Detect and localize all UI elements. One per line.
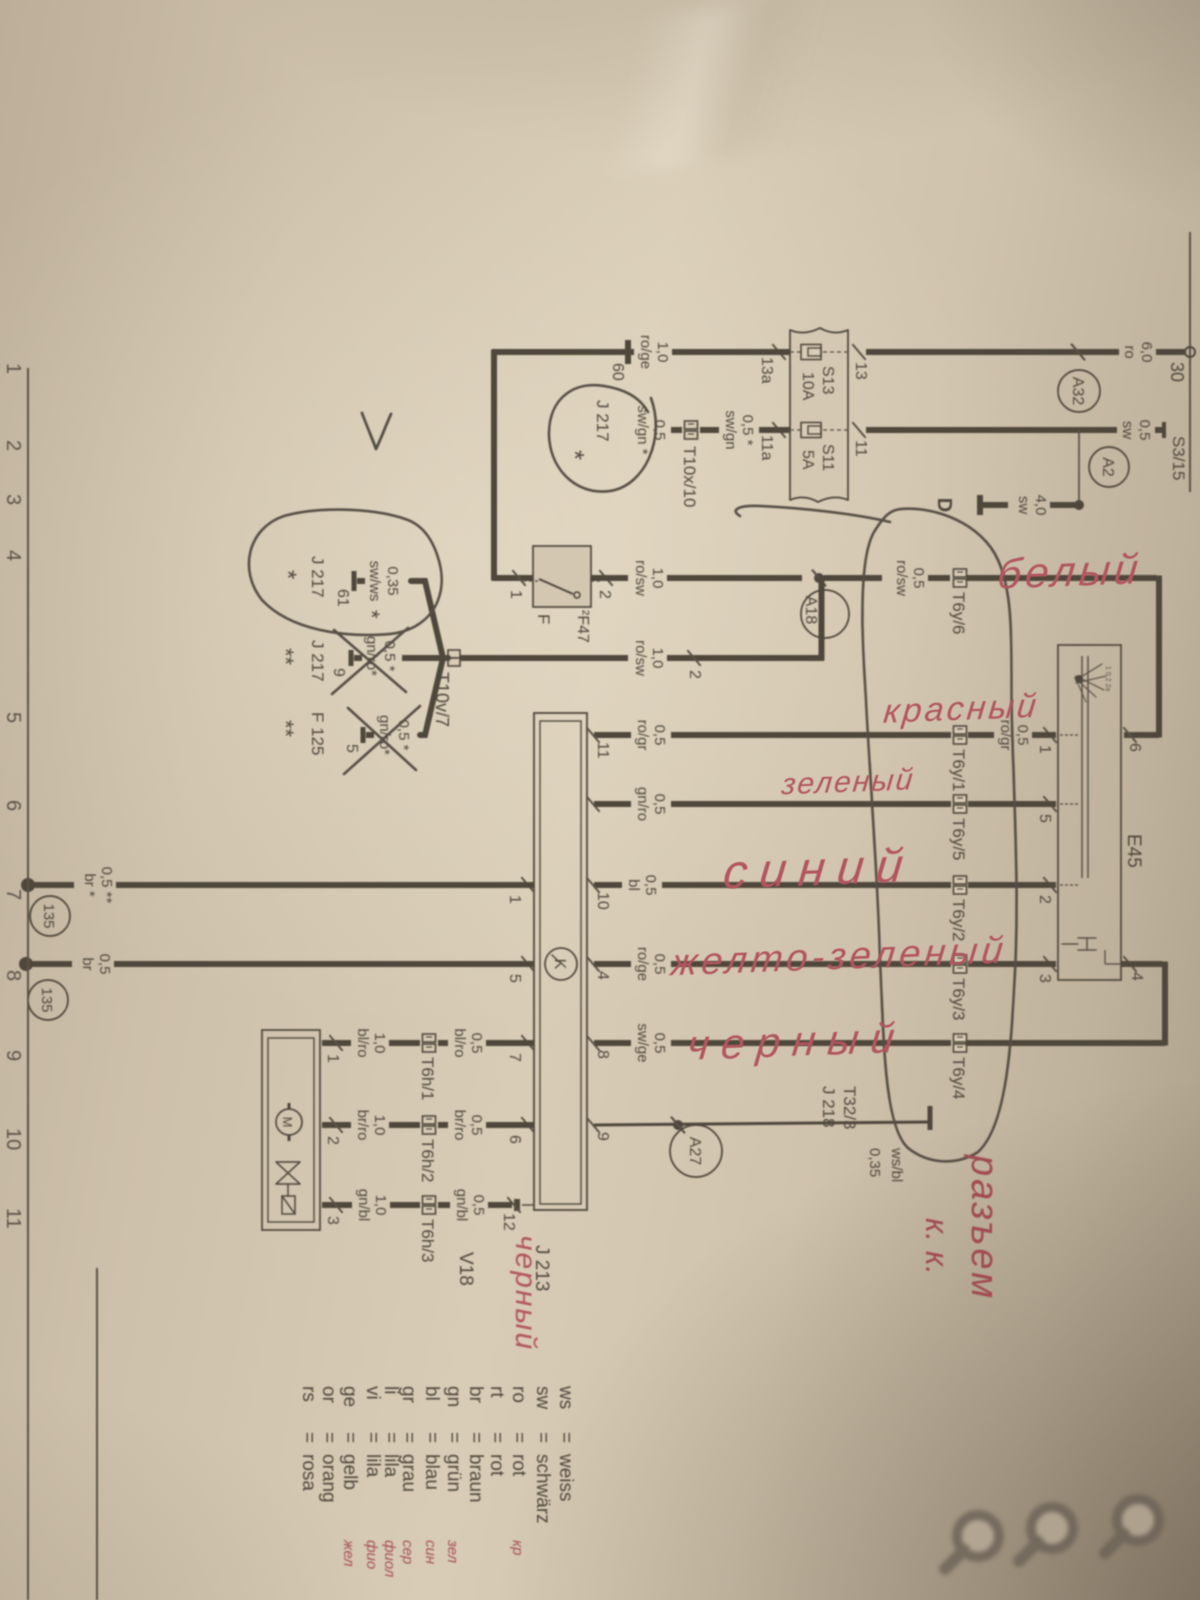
tick 2 on c5 [688,651,700,665]
svg-text:sw/gn *: sw/gn * [634,405,651,454]
svg-text:*: * [560,450,590,460]
svg-text:=: = [398,1432,419,1443]
svg-text:=: = [486,1432,507,1443]
K pin 10 [587,878,599,892]
svg-text:*: * [274,570,301,579]
S3/15 stub [1162,422,1166,438]
ground wire br (c9) [114,961,534,967]
E45 pin 5 [1044,797,1056,811]
svg-text:sw: sw [1119,421,1136,440]
svg-text:sw/ge: sw/ge [634,1023,651,1062]
straight branch to 9 [402,655,448,661]
svg-text:0,5 *: 0,5 * [739,415,756,446]
svg-text:1 0 2 2a: 1 0 2 2a [1104,666,1111,691]
svg-text:ro/sw: ro/sw [632,640,649,676]
svg-text:weiss: weiss [555,1453,576,1502]
svg-text:0,5: 0,5 [642,875,659,896]
svg-text:br: br [465,1386,486,1404]
circle 135 [28,980,68,1020]
branch A18 to T10v/7 (c5) [819,576,825,661]
svg-text:F: F [534,614,553,624]
svg-text:J 217: J 217 [593,400,612,442]
wire ro/ge (c9) E45/3 [968,961,1056,967]
tick 11a [773,423,785,437]
svg-text:lila: lila [362,1454,383,1478]
svg-text:sw/ws: sw/ws [366,561,383,602]
terminal bar 9 [349,650,354,666]
svg-text:7: 7 [506,1053,523,1062]
svg-text:bl/ro: bl/ro [354,1028,371,1057]
fuse box S13/S11 [790,328,848,502]
svg-text:10: 10 [2,1128,24,1150]
svg-text:6,0: 6,0 [1138,342,1155,363]
svg-text:жел: жел [340,1539,357,1567]
svg-text:A18: A18 [802,596,819,625]
svg-text:gn/ro: gn/ro [634,787,651,821]
svg-text:grün: grün [443,1454,464,1492]
E45 box [1058,645,1121,980]
svg-text:2: 2 [2,440,24,451]
connector T6y/4 [954,1034,967,1042]
svg-text:T6h/2: T6h/2 [418,1139,437,1182]
svg-text:1: 1 [1036,745,1053,754]
svg-text:к. к.: к. к. [919,1218,955,1275]
switch lever [539,579,573,594]
svg-text:1: 1 [507,590,524,599]
pen ellipse around J217 [549,385,656,491]
E45 pin 4 [1124,957,1136,971]
Y split right branch to 5 [420,658,448,735]
svg-text:9: 9 [330,668,347,677]
svg-text:T6y/5: T6y/5 [949,818,968,861]
svg-text:10: 10 [594,892,611,910]
svg-text:ro/ge: ro/ge [634,947,651,981]
pen blob around 61/J217 [249,510,442,635]
svg-text:5: 5 [343,744,360,753]
svg-text:0,5: 0,5 [468,1033,485,1054]
svg-text:rt: rt [486,1386,507,1398]
svg-text:sw/gn: sw/gn [722,410,739,449]
svg-text:or: or [318,1386,339,1404]
svg-text:1,0: 1,0 [649,648,666,669]
svg-text:5A: 5A [799,450,816,470]
svg-text:F 125: F 125 [308,712,327,755]
svg-text:2: 2 [596,590,613,599]
svg-text:T6h/3: T6h/3 [418,1219,437,1262]
svg-text:A32: A32 [1069,377,1086,406]
K strip J213 connector [534,713,587,1210]
E45 H contact [1062,938,1096,950]
svg-text:M: M [280,1117,295,1128]
svg-text:ws: ws [555,1385,576,1409]
K pin 1 [522,878,534,892]
svg-text:ro/gr: ro/gr [634,720,651,751]
svg-text:5: 5 [506,974,523,983]
svg-text:=: = [318,1432,339,1443]
svg-text:T6h/1: T6h/1 [418,1057,437,1100]
svg-text:13: 13 [852,362,869,380]
svg-text:gelb: gelb [339,1454,360,1490]
svg-text:T32/3: T32/3 [840,1086,859,1129]
svg-text:0,5: 0,5 [651,794,668,815]
svg-text:8: 8 [594,1050,611,1059]
svg-text:²F47: ²F47 [574,610,591,643]
K pin 5 [522,957,534,971]
svg-text:T6y/1: T6y/1 [949,749,968,792]
svg-text:ro/ge: ro/ge [637,335,654,369]
svg-text:T6y/6: T6y/6 [949,592,968,635]
svg-text:11a: 11a [758,435,775,461]
svg-text:*: * [359,610,384,619]
svg-text:0,35: 0,35 [866,1148,883,1177]
tick 2 (F pin) [600,571,612,585]
svg-text:0,5: 0,5 [1136,420,1153,441]
circle A2 [1089,447,1129,487]
top rule (30 bus) [1189,232,1191,492]
bottom corner run to F [491,350,497,581]
svg-text:J 217: J 217 [308,556,327,598]
svg-text:сер: сер [399,1540,416,1564]
svg-text:3: 3 [324,1216,341,1225]
svg-text:0,5: 0,5 [651,725,668,746]
svg-text:=: = [339,1432,360,1443]
circle 135 [30,896,70,936]
svg-text:6: 6 [1126,743,1143,752]
splice A27 dot [673,1120,683,1130]
svg-text:10A: 10A [799,372,816,401]
svg-text:8: 8 [2,970,24,981]
svg-text:K: K [551,959,568,970]
E45 pin 3 [1044,957,1056,971]
svg-text:=: = [443,1432,464,1443]
svg-text:**: ** [273,720,298,738]
pen big blob around T6y row [736,506,1017,1161]
terminal D bar [977,495,983,515]
svg-text:30: 30 [1167,362,1187,382]
svg-text:ro/sw: ro/sw [893,560,910,596]
svg-text:rs: rs [298,1386,319,1402]
svg-text:кр: кр [509,1540,526,1555]
svg-text:=: = [532,1432,553,1443]
fuse S11 icon [801,423,821,438]
svg-text:7: 7 [2,889,24,900]
connector T6y/1 [954,726,967,734]
svg-text:11: 11 [594,742,611,759]
dot on rule [21,878,35,892]
junction A18 dot [814,573,824,583]
K pin 8 [587,1036,599,1050]
svg-text:S13: S13 [819,366,836,395]
connector T6h/2 [423,1116,436,1124]
svg-text:gr: gr [398,1386,419,1404]
wire up and over to E45/6 [967,575,1157,581]
svg-text:2: 2 [324,1136,341,1145]
svg-text:1: 1 [2,363,24,374]
svg-text:1,0: 1,0 [371,1115,388,1136]
svg-text:черный: черный [509,1235,542,1351]
connector T6y/3 [954,955,967,963]
fuse S13 icon [801,345,821,360]
svg-text:bl: bl [625,879,642,891]
svg-text:br/ro: br/ro [354,1110,371,1141]
svg-text:blau: blau [421,1454,442,1490]
svg-text:9: 9 [594,1132,611,1141]
connector T10v/7 [448,650,460,658]
svg-text:lila: lila [380,1454,401,1478]
svg-text:0,5: 0,5 [651,420,668,441]
valve [276,1162,300,1184]
pen X over 5 labels [344,706,420,774]
svg-text:=: = [380,1432,401,1443]
Y split left branch to 61 [411,581,448,658]
svg-text:sw: sw [532,1386,553,1410]
tick 11 [853,423,865,437]
svg-text:0,5: 0,5 [1014,725,1031,746]
svg-text:0,5 **: 0,5 ** [98,867,115,904]
magnifier icons top right [1105,1499,1159,1553]
svg-text:61: 61 [334,589,351,607]
ground wire br (c8) [116,882,534,888]
E45 slider lines [1087,656,1089,878]
wire bl/ro (c10) to V18/1 [486,1040,534,1046]
V18 pin 1 [330,1036,342,1050]
svg-text:D: D [933,498,955,512]
svg-text:1,0: 1,0 [372,1195,389,1216]
svg-text:6: 6 [2,800,24,811]
svg-text:=: = [298,1432,319,1443]
switch F / F47 box [533,546,591,607]
svg-text:5: 5 [1036,814,1053,823]
V18 pump box [262,1030,320,1230]
svg-text:1,0: 1,0 [371,1033,388,1054]
V18 pin 3 [330,1198,342,1212]
wire 1,0 ro/ge down from S13 (c1) [672,349,790,355]
svg-text:J 217: J 217 [308,640,327,682]
svg-text:3: 3 [1036,974,1053,983]
svg-text:ro: ro [1121,345,1138,358]
connector T6y/6 [954,569,967,577]
svg-text:9: 9 [2,1050,24,1061]
svg-text:135: 135 [40,903,57,928]
wire 0,5 ro/sw up to T6y/6 (c4) [824,575,882,581]
wire gn/ro (c7) E45/5 [968,801,1056,807]
svg-text:разъем: разъем [963,1154,1005,1301]
svg-text:2: 2 [686,670,703,679]
connection circle A27 [670,1125,722,1177]
svg-text:4,0: 4,0 [1032,495,1049,516]
svg-text:bl/ro: bl/ro [451,1028,468,1057]
connection circle A18 [801,590,849,638]
A2 link + node [1078,430,1080,505]
connector T6y/2 [954,876,967,884]
tick 13 [853,345,865,359]
K pin 9 [587,1118,599,1132]
node circle: wire to 30 bus [1185,347,1195,357]
svg-text:sw: sw [1015,496,1032,515]
connection A32 tick [1072,344,1085,359]
connector T10x/10 [685,421,698,429]
svg-text:gn/bl: gn/bl [453,1189,470,1222]
svg-text:li: li [380,1386,401,1394]
terminal bar 61 [352,571,357,591]
svg-text:ro: ro [508,1386,529,1403]
svg-text:0,35: 0,35 [384,566,401,595]
connection circle A32 [1058,370,1100,412]
K pin 7 [522,1036,534,1050]
motor M [276,1109,302,1135]
svg-text:=: = [421,1432,442,1443]
svg-text:4: 4 [2,550,24,561]
svg-text:4: 4 [1128,972,1145,981]
svg-text:A27: A27 [686,1137,703,1166]
svg-text:1: 1 [324,1054,341,1063]
legend separator rule [96,1268,98,1600]
svg-text:6: 6 [506,1135,523,1144]
wire 0,5 sw down (c2) [866,427,1117,433]
svg-text:br/ro: br/ro [451,1110,468,1141]
circle K [545,948,577,980]
E45/4 jog to c10 [1121,961,1163,967]
E45 pin 1 [1044,728,1056,742]
svg-text:A2: A2 [1099,457,1116,477]
svg-text:orang: orang [318,1454,339,1503]
svg-text:=: = [465,1432,486,1443]
K pin 6 [522,1118,534,1132]
connector T6y/5 [954,795,967,803]
svg-text:син: син [422,1540,439,1564]
svg-text:V18: V18 [455,1252,476,1286]
V18 pin 2 [330,1118,342,1132]
pen checkmark [362,413,391,449]
svg-text:=: = [555,1432,576,1443]
pen X over 9 labels [332,628,408,694]
svg-text:ge: ge [339,1386,360,1407]
K pin top (gn/ro) [587,797,599,811]
svg-text:12: 12 [500,1213,517,1231]
svg-text:J 218: J 218 [819,1086,838,1128]
svg-text:3: 3 [2,494,24,505]
svg-text:1,0: 1,0 [654,342,671,363]
svg-text:E45: E45 [1123,834,1144,868]
tick 1 (F pin) [513,571,525,585]
wire gn/bl (c12) to V18/3 [488,1202,512,1208]
svg-text:11: 11 [2,1208,24,1229]
E45 pin 6 [1124,728,1136,742]
svg-text:0,5: 0,5 [910,568,927,589]
svg-text:зел: зел [444,1539,461,1564]
svg-text:rot: rot [508,1454,529,1477]
svg-text:60: 60 [609,363,626,381]
K pin 12 [522,1204,534,1206]
K pin 4 [587,957,599,971]
svg-text:vi: vi [362,1386,383,1400]
svg-text:фиол: фиол [381,1540,398,1578]
connector T6h/3 [423,1196,436,1204]
svg-text:ws/bl: ws/bl [888,1147,905,1182]
wire br/ro (c11) to V18/2 [486,1122,534,1128]
switch dashes [588,580,600,582]
svg-text:S3/15: S3/15 [1169,436,1188,480]
svg-text:T6y/3: T6y/3 [949,978,968,1021]
terminal 60 bar [625,340,631,364]
wire 1,0 ro/sw up from F (c4) [591,575,628,581]
svg-text:grau: grau [398,1454,419,1492]
svg-text:2: 2 [1036,895,1053,904]
svg-text:rosa: rosa [298,1454,319,1491]
tick 13a [773,345,785,359]
wire c2 sw/gn below 11a [759,427,790,433]
E45 pin 2 [1044,878,1056,892]
svg-text:schwärz: schwärz [532,1454,553,1524]
bottom rule [27,368,29,1600]
E45 contact dashes [1060,734,1078,736]
svg-text:braun: braun [465,1454,486,1503]
svg-text:**: ** [273,648,298,666]
svg-text:5: 5 [2,712,24,723]
wire bl (c8) E45/2 [968,882,1056,888]
svg-text:0,5: 0,5 [651,954,668,975]
svg-text:0,5: 0,5 [470,1195,487,1216]
svg-text:13a: 13a [758,357,775,384]
svg-text:T6y/4: T6y/4 [949,1057,968,1100]
svg-text:0,5: 0,5 [96,954,113,975]
terminal bar 5 [361,727,366,743]
svg-text:=: = [508,1432,529,1443]
svg-text:0,5 *: 0,5 * [395,720,412,751]
connector T6h/1 [423,1034,436,1042]
wire 6,0 ro from terminal 30 (c1) [1156,349,1185,355]
dot on rule [19,957,33,971]
wire 0,5 ro/gr (c6) [1032,732,1056,738]
svg-text:фио: фио [363,1540,380,1569]
svg-text:br *: br * [81,873,98,897]
svg-text:gn/bl: gn/bl [355,1189,372,1222]
svg-text:1: 1 [506,895,523,904]
svg-text:0,5: 0,5 [468,1115,485,1136]
svg-text:gn: gn [443,1386,464,1407]
svg-text:1,0: 1,0 [649,568,666,589]
svg-text:ro/sw: ro/sw [632,560,649,596]
svg-text:11: 11 [852,440,869,457]
svg-text:=: = [362,1432,383,1443]
svg-text:S11: S11 [819,444,836,471]
svg-text:br: br [79,957,96,970]
wire 0,35 ws/bl (c11) [928,1106,933,1130]
svg-text:4: 4 [594,971,611,980]
K pin 11 [587,728,599,742]
svg-text:bl: bl [421,1386,442,1401]
wire 4,0 sw short (c3) [1050,502,1079,508]
svg-text:135: 135 [38,987,55,1012]
svg-text:0,5: 0,5 [651,1033,668,1054]
svg-text:T10x/10: T10x/10 [680,446,699,507]
svg-text:rot: rot [486,1454,507,1477]
E45 burst contact [1075,664,1106,702]
